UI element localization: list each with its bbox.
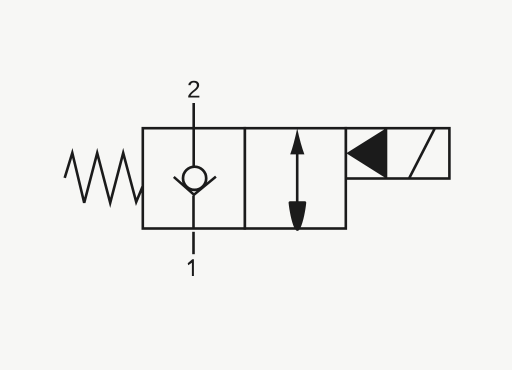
- double arrow shaft: [296, 140, 299, 212]
- spring: [65, 153, 143, 203]
- solenoid armature triangle: [346, 128, 386, 178]
- valve body box 2 (arrow position): [245, 128, 346, 228]
- solenoid triangle base line: [385, 128, 388, 178]
- port 2 line: [192, 103, 195, 166]
- solenoid box: [346, 128, 450, 178]
- check valve poppet ball: [183, 167, 206, 190]
- solenoid diagonal: [409, 128, 435, 178]
- double arrow top head: [290, 128, 304, 154]
- valve body box 1 (check-valve position): [143, 128, 245, 228]
- svg-text:2: 2: [187, 77, 201, 104]
- port 1 line (inside box): [192, 196, 195, 229]
- label port 1: [188, 259, 194, 276]
- port 1 line (external stub): [192, 232, 195, 254]
- check valve seat: [174, 177, 216, 195]
- double arrow bottom head: [289, 201, 307, 231]
